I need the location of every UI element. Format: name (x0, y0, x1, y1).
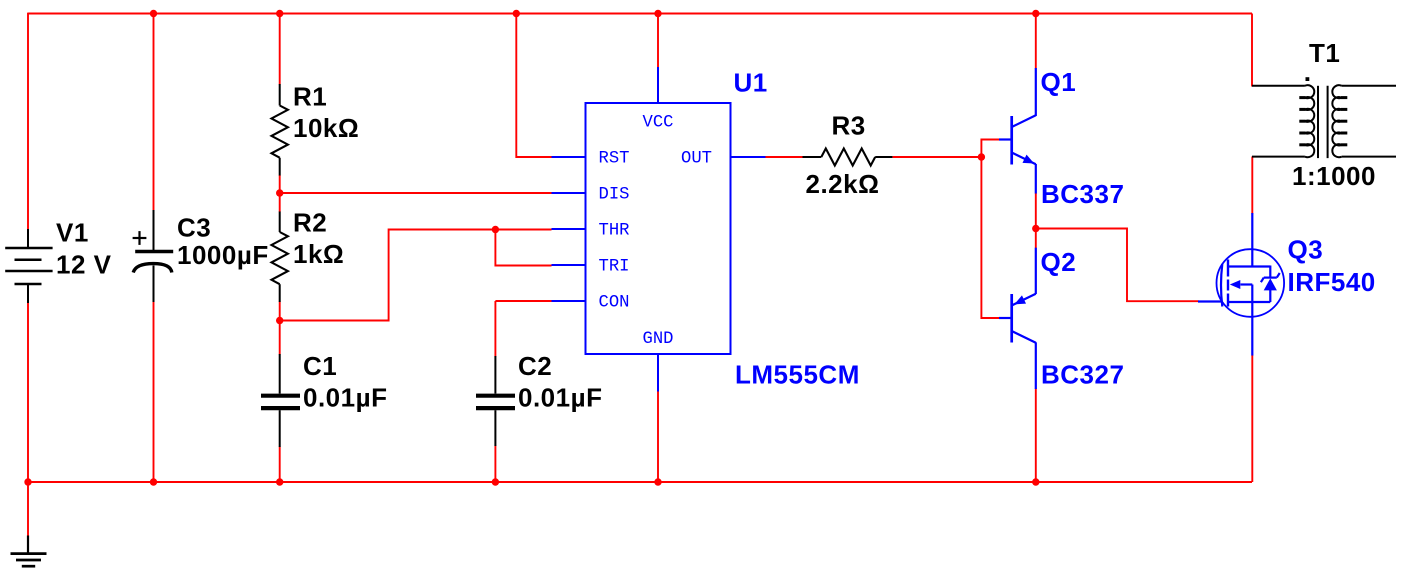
capacitor C3 (133, 210, 174, 302)
U1 pin VCC stub (657, 67, 659, 103)
U1 pin OUT stub (731, 156, 766, 158)
svg-text:LM555CM: LM555CM (735, 360, 860, 390)
label BC327 (1041, 360, 1124, 390)
capacitor C1 (261, 354, 300, 447)
label C3 (177, 213, 211, 243)
label Q2 (1041, 247, 1077, 277)
junction node Q1 emitter-Q2 emitter-gate (1032, 225, 1039, 232)
label LM555CM (735, 360, 860, 390)
wire Q3 source to rail (1251, 355, 1253, 482)
label IRF540 (1288, 267, 1376, 297)
value 10kΩ (293, 113, 359, 143)
label C2 (518, 351, 552, 381)
U1 pin label CON (599, 294, 630, 313)
wire R1-R2 link (279, 175, 281, 212)
wire left rail upper (V1 +) (27, 13, 29, 230)
wire C1 bottom (279, 447, 281, 483)
junction bottom rail / Q2 collector (1032, 478, 1039, 485)
label BC337 (1041, 179, 1124, 209)
wire C3 top (153, 14, 155, 212)
transformer T1 (1252, 77, 1396, 158)
label V1 (56, 218, 89, 248)
value 0.01µF (C1) (303, 383, 387, 413)
wire left rail lower (V1 -) (27, 303, 29, 483)
svg-text:1000µF: 1000µF (177, 240, 269, 270)
junction bottom rail / ground (24, 478, 31, 485)
svg-text:TRI: TRI (599, 258, 630, 277)
wire DIS net (280, 192, 552, 194)
label 1:1000 (1292, 161, 1376, 191)
wire OUT to R3 (765, 156, 804, 158)
label 2.2kΩ (806, 169, 880, 199)
wire GND drop (657, 391, 659, 482)
svg-text:OUT: OUT (681, 150, 712, 169)
svg-text:C1: C1 (303, 351, 337, 381)
wire R2 bottom to C1 (279, 302, 281, 355)
wire THR node to TRI (495, 230, 551, 266)
label C1 (303, 351, 337, 381)
svg-text:1kΩ: 1kΩ (293, 239, 344, 269)
svg-text:10kΩ: 10kΩ (293, 113, 359, 143)
svg-text:BC337: BC337 (1041, 179, 1124, 209)
U1 pin label THR (599, 222, 630, 241)
wire VCC drop (657, 14, 659, 68)
svg-text:THR: THR (599, 222, 630, 241)
wire R3 to Q bases node (893, 156, 982, 158)
wire CON horizontal (495, 300, 551, 302)
U1 pin DIS stub (552, 192, 586, 194)
resistor R1 (272, 84, 288, 176)
U1 pin GND stub (657, 354, 659, 392)
junction node R3-Q1-Q2 bases (978, 153, 985, 160)
junction top rail / C3 (150, 10, 157, 17)
wire rail to T1 primary (1251, 14, 1253, 87)
svg-text:U1: U1 (734, 68, 768, 98)
U1 pin CON stub (552, 300, 586, 302)
svg-text:1:1000: 1:1000 (1292, 161, 1376, 191)
wire CON to C2 (494, 301, 496, 357)
label Q3 (1288, 234, 1324, 264)
U1 pin label GND (643, 330, 674, 349)
value 12 V (56, 250, 112, 280)
label R2 (293, 208, 327, 238)
svg-text:R2: R2 (293, 208, 327, 238)
junction node THR-TRI (492, 226, 499, 233)
junction top rail / VCC (654, 10, 661, 17)
label U1 (734, 68, 768, 98)
wire R1 top (279, 14, 281, 85)
value 0.01µF (C2) (518, 383, 602, 413)
resistor R2 (272, 212, 288, 303)
capacitor C2 (476, 356, 515, 446)
svg-text:2.2kΩ: 2.2kΩ (806, 169, 880, 199)
op-amp U1 box (586, 103, 731, 354)
svg-text:0.01µF: 0.01µF (303, 383, 387, 413)
svg-text:C3: C3 (177, 213, 211, 243)
wire node to Q2 emitter (1035, 228, 1037, 248)
wire Q2 collector to rail (1035, 389, 1037, 483)
wire node up to Q1 base (981, 140, 999, 158)
svg-text:C2: C2 (518, 351, 552, 381)
wire R2/C1 node to THR (280, 230, 552, 321)
svg-text:V1: V1 (56, 218, 89, 248)
battery V1 (5, 229, 52, 303)
wire T1 primary to Q3 drain (1251, 157, 1253, 214)
transistor Q3 (MOSFET) (1198, 213, 1284, 356)
wire C2 bottom (494, 446, 496, 483)
U1 pin label OUT (681, 150, 712, 169)
svg-text:BC327: BC327 (1041, 360, 1124, 390)
label Q1 (1041, 67, 1077, 97)
svg-text:T1: T1 (1309, 38, 1340, 68)
label R3 (832, 111, 866, 141)
U1 pin TRI stub (552, 264, 586, 266)
junction top rail / Q1 collector (1032, 10, 1039, 17)
U1 pin THR stub (552, 228, 586, 230)
U1 pin label VCC (643, 114, 674, 133)
wire ground stub (27, 482, 29, 537)
junction bottom rail / C3 (150, 478, 157, 485)
wire node down to Q2 base (981, 157, 999, 318)
junction bottom rail / C2 (492, 478, 499, 485)
transistor Q2 (999, 248, 1036, 389)
ground (11, 536, 47, 567)
resistor R3 (803, 149, 893, 166)
wire C3 bottom (153, 301, 155, 482)
svg-text:DIS: DIS (599, 186, 630, 205)
svg-text:12 V: 12 V (56, 250, 112, 280)
U1 pin label RST (599, 150, 630, 169)
U1 pin label TRI (599, 258, 630, 277)
wire emitter node to Q3 gate (1036, 229, 1199, 302)
svg-text:Q3: Q3 (1288, 234, 1324, 264)
svg-text:RST: RST (599, 150, 630, 169)
junction node R2-C1-THR (276, 317, 283, 324)
junction top rail / RST (513, 10, 520, 17)
svg-text:GND: GND (643, 330, 674, 349)
label T1 (1309, 38, 1340, 68)
wire top power rail (28, 13, 1252, 15)
svg-text:IRF540: IRF540 (1288, 267, 1376, 297)
U1 pin label DIS (599, 186, 630, 205)
svg-text:R3: R3 (832, 111, 866, 141)
svg-text:Q2: Q2 (1041, 247, 1077, 277)
value 1kΩ (293, 239, 344, 269)
transistor Q1 (999, 68, 1036, 194)
svg-text:VCC: VCC (643, 114, 674, 133)
svg-text:CON: CON (599, 294, 630, 313)
wire RST drop from rail (516, 14, 551, 158)
svg-text:0.01µF: 0.01µF (518, 383, 602, 413)
svg-text:R1: R1 (293, 82, 327, 112)
wire Q1 emitter to node (1035, 193, 1037, 229)
junction top rail / R1 (276, 10, 283, 17)
junction node R1-R2-DIS (276, 189, 283, 196)
wire Q1 collector to rail (1035, 14, 1037, 69)
wire bottom ground rail (28, 481, 1252, 483)
junction bottom rail / GND pin (654, 478, 661, 485)
value 1000µF (177, 240, 269, 270)
label R1 (293, 82, 327, 112)
U1 pin RST stub (552, 156, 586, 158)
svg-text:Q1: Q1 (1041, 67, 1077, 97)
junction bottom rail / C1 (276, 478, 283, 485)
